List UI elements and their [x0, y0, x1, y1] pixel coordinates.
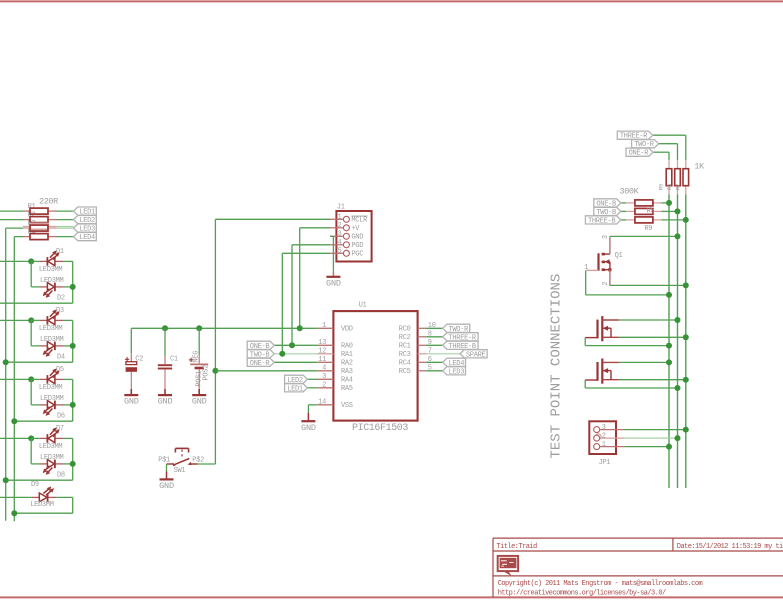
- net flag THREE-B right: [585, 216, 620, 226]
- U1 pin 10 RC0: [418, 327, 427, 329]
- ground U1: [301, 421, 316, 433]
- ground SW1: [159, 479, 174, 491]
- svg-text:J1: J1: [337, 204, 345, 212]
- LED D5: [47, 368, 59, 383]
- svg-text:R8: R8: [647, 207, 655, 215]
- svg-text:GND: GND: [192, 397, 207, 407]
- svg-text:RA5: RA5: [341, 385, 353, 393]
- svg-text:3: 3: [322, 373, 326, 381]
- svg-text:3: 3: [602, 235, 610, 239]
- svg-text:LED3MM: LED3MM: [40, 336, 64, 344]
- junction D1 left: [28, 258, 34, 264]
- svg-text:PGC: PGC: [351, 251, 363, 259]
- junction Q3 drain: [666, 359, 672, 365]
- svg-text:RA1: RA1: [341, 351, 353, 359]
- svg-text:Date:15/1/2012 11:53:19 my ti: Date:15/1/2012 11:53:19 my ti: [677, 543, 783, 551]
- wire net row to D1: [0, 260, 31, 262]
- resistor R4 220R: [30, 234, 48, 240]
- net flag ONE-R left: [247, 358, 274, 368]
- pin stubs D3: [40, 319, 48, 321]
- J1 gnd lead: [332, 272, 334, 277]
- junction D5 left: [28, 376, 34, 382]
- U1 pin 3 RA4: [317, 378, 333, 380]
- pin stubs D4: [40, 345, 48, 347]
- net flag LED1 mid: [285, 384, 308, 394]
- junction D4 right: [70, 343, 76, 349]
- wire net row to D5: [0, 378, 31, 380]
- junction C1 vdd: [162, 325, 168, 331]
- junction 300K row2: [675, 208, 681, 214]
- JP1 pin 2: [600, 437, 625, 439]
- wire Q1 drain to TWO-R: [610, 235, 678, 237]
- wire loop left D7/D8: [30, 438, 32, 464]
- 300K stubs row1: [626, 202, 635, 204]
- wire VDD rail: [131, 327, 317, 329]
- wire D1 right loop: [63, 260, 73, 262]
- wire LED1 net to R1: [0, 210, 23, 212]
- svg-text:3: 3: [602, 424, 606, 432]
- svg-text:GND: GND: [301, 423, 316, 433]
- resistor R2 220R: [30, 217, 48, 223]
- U1 pin 2 RA5: [317, 387, 333, 389]
- connector J1 box: [336, 211, 371, 262]
- U1 pin 1 VDD: [317, 327, 333, 329]
- svg-text:RC4: RC4: [399, 360, 411, 368]
- net flag LED3: [74, 224, 97, 234]
- JP1 pin 3: [600, 429, 625, 431]
- net flag THREE-B mid: [443, 341, 478, 351]
- svg-text:SPARE: SPARE: [466, 351, 486, 359]
- wire ONE-R to bus: [653, 151, 669, 153]
- wire Q1 source to THREE-R: [610, 284, 686, 286]
- wire D9 bottom: [14, 512, 72, 514]
- net flag LED4: [74, 233, 97, 243]
- BT1 bottom lead: [198, 369, 200, 389]
- pin stubs R4: [23, 236, 30, 238]
- wire +V from J1 pin2: [300, 227, 330, 229]
- LED D7: [47, 427, 59, 442]
- svg-text:RC0: RC0: [399, 326, 411, 334]
- pin stubs D1: [40, 260, 48, 262]
- wire loop bottom D3/D4: [6, 361, 73, 363]
- U1 pin 12 RA1: [317, 353, 333, 355]
- wire D7 right loop: [63, 437, 73, 439]
- svg-text:TEST POINT CONNECTIONS: TEST POINT CONNECTIONS: [549, 274, 565, 459]
- svg-text:R5: R5: [658, 184, 665, 190]
- wire net row to D7: [0, 437, 31, 439]
- wire loop left D1/D2: [30, 261, 32, 287]
- BT1 lead: [198, 355, 200, 363]
- net flag THREE-R mid: [443, 333, 478, 343]
- svg-text:P$1: P$1: [158, 456, 170, 464]
- U1 pin 14 VSS: [317, 404, 333, 406]
- svg-text:+V: +V: [351, 225, 360, 233]
- svg-text:U1: U1: [359, 302, 367, 310]
- svg-text:GND: GND: [158, 397, 173, 407]
- wire loop bottom D7/D8: [6, 479, 73, 481]
- SW1 gnd lead: [166, 472, 168, 479]
- junction LED4 bus: [11, 418, 17, 424]
- wire 300K row1 to bus: [662, 202, 670, 204]
- svg-text:RC2: RC2: [399, 334, 411, 342]
- U1 gnd lead: [307, 413, 309, 421]
- U1 pin 9 RC1: [418, 344, 427, 346]
- svg-text:C2: C2: [135, 355, 143, 363]
- svg-text:RC5: RC5: [399, 368, 411, 376]
- transistor Q3: [585, 359, 619, 384]
- U1 pin 5 RC5: [418, 370, 427, 372]
- switch SW1: [167, 448, 198, 466]
- svg-text:R6: R6: [666, 184, 673, 190]
- svg-text:4: 4: [322, 364, 326, 372]
- transistor Q2: [585, 316, 619, 341]
- svg-text:LED1: LED1: [287, 385, 303, 393]
- svg-text:2: 2: [322, 381, 326, 389]
- wire VSS to gnd: [308, 404, 317, 406]
- net flag LED4 mid: [443, 358, 466, 368]
- junction Q2 gate: [666, 343, 672, 349]
- svg-text:D2: D2: [57, 294, 65, 302]
- resistor R6 1K: [675, 169, 681, 186]
- net flag LED2: [74, 216, 97, 226]
- IC U1 box: [333, 311, 417, 421]
- pin stubs D8: [40, 463, 48, 465]
- wire PGD from J1 pin4: [292, 244, 330, 246]
- svg-text:ONE-R: ONE-R: [629, 150, 650, 158]
- connector JP1 box: [589, 421, 616, 454]
- wire C2 top: [130, 328, 132, 353]
- junction 300K row3: [683, 217, 689, 223]
- svg-text:LED3MM: LED3MM: [40, 277, 64, 285]
- junction PGD RA0: [289, 342, 295, 348]
- resistor R1 220R: [30, 208, 48, 214]
- pin stubs D7: [40, 437, 48, 439]
- resistor R3 ghost copy: [30, 223, 48, 229]
- svg-text:PGD: PGD: [351, 242, 363, 250]
- resistor R5 1K: [666, 169, 672, 186]
- net flag ONE-R top: [626, 148, 653, 158]
- svg-text:2: 2: [602, 433, 606, 441]
- svg-text:Copyright(c) 2011 Mats Engstro: Copyright(c) 2011 Mats Engstrom - mats@s…: [498, 580, 703, 588]
- junction BT1 vdd: [196, 325, 202, 331]
- svg-text:Title:Traid: Title:Traid: [497, 543, 538, 551]
- svg-text:2: 2: [602, 282, 610, 286]
- wire GND from J1 pin3: [330, 235, 333, 237]
- wire BT1 top: [198, 328, 200, 355]
- wire SW1 to gnd: [166, 464, 168, 472]
- svg-text:D6: D6: [57, 412, 65, 420]
- wire D3 right loop: [63, 319, 73, 321]
- wire D7 to right: [31, 437, 40, 439]
- J1 pin 5: [330, 252, 344, 254]
- ground BT1: [192, 395, 207, 407]
- svg-text:GND: GND: [159, 481, 174, 491]
- wire JP1 pin1 to ONE-R: [624, 446, 669, 448]
- LED D9: [39, 486, 54, 501]
- wire D6 right: [63, 404, 73, 406]
- wire C1 top: [164, 328, 166, 356]
- net flag SPARE: [460, 350, 487, 360]
- J1 pin 1: [330, 218, 344, 220]
- junction D2 right: [70, 284, 76, 290]
- svg-text:R2: R2: [28, 212, 36, 220]
- svg-text:MCLR: MCLR: [351, 217, 368, 225]
- wire R2 to flag: [57, 219, 74, 221]
- JP1 pin 1: [600, 446, 625, 448]
- junction D7 left: [28, 435, 34, 441]
- LED D3: [47, 309, 59, 324]
- wire loop left D3/D4: [30, 320, 32, 346]
- title block frame: [492, 538, 494, 597]
- wire R1 to flag: [57, 210, 74, 212]
- svg-text:R1: R1: [28, 203, 36, 211]
- page border top: [0, 0, 783, 2]
- svg-text:300K: 300K: [620, 186, 640, 196]
- svg-text:5: 5: [338, 248, 342, 256]
- capacitor C1: [158, 365, 172, 368]
- wire MCLR to RA3: [215, 370, 317, 372]
- svg-text:D4: D4: [57, 353, 65, 361]
- C2 bottom lead: [130, 372, 132, 390]
- svg-text:LED3MM: LED3MM: [39, 443, 63, 451]
- bus TWO-R vertical: [677, 194, 679, 488]
- resistor R3 220R: [30, 225, 48, 231]
- 1K resistor stubs R6: [677, 160, 679, 169]
- wire D2 right: [63, 286, 73, 288]
- wire LED2 net to R2: [0, 219, 23, 221]
- junction Q1 source: [683, 282, 689, 288]
- wire RC3 to SPARE ghost: [426, 353, 460, 355]
- wire R4 to flag: [57, 236, 74, 238]
- wire Q3 gate to TWO-R: [584, 380, 586, 388]
- wire Q3 source to THREE-R: [619, 379, 686, 381]
- junction Q3 source: [683, 377, 689, 383]
- net flag LED1: [74, 207, 97, 217]
- junction PGC RA1: [279, 351, 285, 357]
- wire SW1 to MCLR: [198, 463, 216, 465]
- svg-text:RC1: RC1: [399, 343, 411, 351]
- svg-text:GND: GND: [124, 397, 139, 407]
- svg-text:D7: D7: [56, 425, 64, 433]
- wire D4 right: [63, 345, 73, 347]
- wire ONE-R to RA2: [274, 361, 317, 363]
- 300K stubs row2: [626, 210, 635, 212]
- svg-text:12: 12: [318, 347, 326, 355]
- wire D5 to right: [31, 378, 40, 380]
- wire JP1 pin3 to THREE-R: [624, 429, 685, 431]
- U1 pin 11 RA2: [317, 361, 333, 363]
- pin stubs R3: [23, 227, 30, 229]
- 1K resistor stubs R5: [668, 160, 670, 169]
- C2 lead: [130, 353, 132, 361]
- wire TWO-R to bus: [659, 143, 678, 145]
- svg-text:RA3: RA3: [341, 368, 353, 376]
- wire JP1 pin2 to TWO-R ghost: [624, 437, 677, 439]
- junction D8 right: [70, 461, 76, 467]
- svg-text:LED3MM: LED3MM: [39, 266, 63, 274]
- pin stubs R1: [23, 210, 30, 212]
- wire net row to D9: [0, 496, 32, 498]
- U1 pin 4 RA3: [317, 370, 333, 372]
- svg-text:ONE-R: ONE-R: [250, 360, 271, 368]
- wire LED1 to RA5: [307, 387, 317, 389]
- junction D3 left: [28, 317, 34, 323]
- svg-text:4: 4: [338, 239, 342, 247]
- junction D6 right: [70, 402, 76, 408]
- wire loop left D5/D6: [30, 379, 32, 405]
- J1 pin 3: [330, 235, 344, 237]
- 300K stubs row3: [626, 219, 635, 221]
- wire 300K row2 to bus: [662, 210, 678, 212]
- wire RC5 to LED3: [426, 370, 443, 372]
- svg-text:R9: R9: [644, 225, 652, 233]
- net flag THREE-R top: [617, 131, 652, 141]
- junction 300K row1: [666, 200, 672, 206]
- wire D3 to right: [31, 319, 40, 321]
- wire Q2 source to THREE-R: [619, 336, 686, 338]
- resistor R7 1K: [683, 169, 689, 186]
- pin stubs D6: [40, 404, 48, 406]
- battery BT1: [189, 358, 208, 368]
- svg-text:Q1: Q1: [615, 252, 623, 260]
- wire THREE-R to bus: [653, 134, 686, 136]
- wire TWO-B to RA1 ghost: [274, 353, 317, 355]
- resistor R8 300K: [635, 208, 653, 214]
- svg-text:VDD: VDD: [341, 326, 353, 334]
- wire MCLR junction RA3: [212, 368, 218, 374]
- wire Q3 drain to ONE-R: [619, 361, 669, 363]
- svg-text:RC3: RC3: [399, 351, 411, 359]
- 1K resistor stubs R7: [685, 160, 687, 169]
- svg-text:D9: D9: [31, 481, 39, 489]
- svg-text:PIC16F1503: PIC16F1503: [352, 423, 408, 434]
- wire Q1 gate to ONE-R: [585, 270, 587, 295]
- junction JP1 pin2: [675, 435, 681, 441]
- resistor R9 300K: [635, 217, 653, 223]
- junction Q1 gate: [666, 292, 672, 298]
- svg-text:RA2: RA2: [341, 360, 353, 368]
- svg-text:1: 1: [338, 214, 342, 222]
- net flag ONE-B right: [594, 199, 621, 209]
- svg-text:14: 14: [318, 398, 326, 406]
- LED D1: [47, 250, 59, 265]
- wire RC0 to TWO-R: [426, 327, 443, 329]
- ground C2: [124, 395, 139, 407]
- LED D4: [43, 342, 55, 357]
- svg-text:R7: R7: [674, 184, 681, 190]
- wire net row to D3: [0, 319, 31, 321]
- net flag TWO-R mid: [443, 324, 470, 334]
- wire Q2 drain to TWO-R: [619, 319, 678, 321]
- junction JP1 pin1: [666, 444, 672, 450]
- J1 pin 2: [330, 227, 344, 229]
- svg-text:SW1: SW1: [174, 467, 186, 475]
- LED D2: [43, 283, 55, 298]
- junction LED3 bus: [3, 359, 9, 365]
- net flag LED2 mid: [285, 375, 308, 385]
- svg-text:LED3MM: LED3MM: [30, 501, 54, 509]
- wire D8 right: [63, 463, 73, 465]
- svg-text:3: 3: [338, 231, 342, 239]
- net flag LED3 mid: [443, 367, 466, 377]
- wire D9 right loop: [56, 496, 72, 498]
- wire loop bottom D5/D6: [14, 420, 72, 422]
- svg-text:LED3MM: LED3MM: [39, 384, 63, 392]
- wire TWO-B flag: [621, 210, 626, 212]
- resistor R7 300K: [635, 200, 653, 206]
- wire R4 left + vertical bus LED4: [14, 236, 23, 238]
- junction Q1 drain: [675, 233, 681, 239]
- svg-text:http://creativecommons.org/lic: http://creativecommons.org/licenses/by-s…: [498, 589, 666, 597]
- svg-text:11: 11: [318, 356, 326, 364]
- svg-text:LED3MM: LED3MM: [39, 325, 63, 333]
- junction J1 +V vdd: [297, 325, 303, 331]
- wire LED2 to RA4: [307, 378, 317, 380]
- svg-text:RA4: RA4: [341, 377, 353, 385]
- logo smallroomlabs: [498, 556, 518, 577]
- wire RC2 to THREE-R: [426, 336, 443, 338]
- wire loop bottom D1/D2: [0, 302, 73, 304]
- ground C1: [158, 395, 173, 407]
- J1 pin 4: [330, 244, 344, 246]
- bus THREE-R vertical: [685, 194, 687, 488]
- net flag TWO-B left: [247, 350, 274, 360]
- U1 pin 6 RC4: [418, 361, 427, 363]
- LED D6: [43, 401, 55, 416]
- net flag ONE-B left: [247, 341, 274, 351]
- junction Q3 gate: [675, 385, 681, 391]
- svg-text:JP1: JP1: [599, 459, 611, 467]
- svg-text:D8: D8: [57, 471, 65, 479]
- junction JP1 pin3: [683, 427, 689, 433]
- svg-text:D1: D1: [56, 248, 64, 256]
- bus ONE-R vertical: [668, 194, 670, 488]
- wire PGC from J1 pin5: [282, 252, 330, 254]
- capacitor C2: [125, 357, 137, 371]
- page border bottom: [0, 596, 783, 598]
- net flag TWO-R top: [632, 140, 659, 150]
- wire ONE-B to RA0: [274, 344, 317, 346]
- wire MCLR from J1 pin1: [215, 218, 330, 220]
- wire THREE-B flag: [621, 219, 626, 221]
- junction Q2 source: [683, 334, 689, 340]
- wire R3 to flag ghost: [57, 227, 74, 229]
- junction LED3 bus 2: [3, 477, 9, 483]
- pin stubs D9: [32, 496, 40, 498]
- U1 pin 7 RC3: [418, 353, 427, 355]
- net flag TWO-B right: [594, 207, 621, 217]
- U1 pin 8 RC2: [418, 336, 427, 338]
- svg-text:1: 1: [322, 322, 326, 330]
- svg-text:D3: D3: [56, 307, 64, 315]
- svg-text:C1: C1: [170, 355, 178, 363]
- svg-text:LED3MM: LED3MM: [40, 454, 64, 462]
- pin stubs D2: [40, 286, 48, 288]
- wire RC4 to LED4: [426, 361, 443, 363]
- transistor Q1: [586, 236, 611, 285]
- svg-text:GND: GND: [326, 278, 341, 288]
- svg-text:POS2: POS2: [202, 365, 210, 381]
- ground J1: [326, 277, 341, 289]
- LED D8: [43, 460, 55, 475]
- wire D1 to right: [31, 260, 40, 262]
- svg-text:LED3MM: LED3MM: [40, 395, 64, 403]
- svg-text:1: 1: [602, 441, 606, 449]
- wire D5 right loop: [63, 378, 73, 380]
- svg-text:P$2: P$2: [192, 456, 204, 464]
- wire ONE-B flag: [621, 202, 626, 204]
- svg-text:NEG: NEG: [193, 351, 201, 363]
